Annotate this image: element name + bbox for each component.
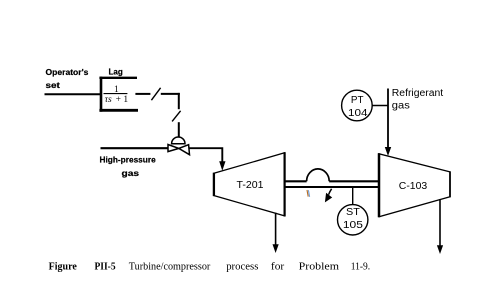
lag block value label: 1/(τs+1): [104, 85, 129, 105]
svg-text:Turbine/compressor: Turbine/compressor: [129, 260, 211, 272]
small artifact tick on shaft: [307, 190, 310, 197]
shaft: turbine to compressor (double line with jump hump): [285, 181, 379, 187]
slash mark on horizontal signal wire: [151, 88, 160, 100]
pipe: compressor discharge downward: [439, 199, 441, 247]
svg-text:High-pressure: High-pressure: [100, 155, 156, 165]
label: High-pressure gas: [100, 155, 156, 178]
pipe: valve outlet to turbine inlet: [189, 148, 222, 162]
shaft jump hump: [307, 169, 330, 181]
wire: operator set-point signal into lag block: [45, 93, 101, 95]
svg-text:11-9.: 11-9.: [351, 260, 371, 272]
turbine T-201 body: [214, 152, 285, 216]
arrowhead refrigerant inlet: [385, 147, 391, 156]
pipe: refrigerant gas into compressor: [387, 89, 389, 149]
svg-text:gas: gas: [392, 101, 410, 112]
svg-text:105: 105: [343, 220, 363, 231]
svg-text:PII-5: PII-5: [95, 260, 117, 272]
wire: signal down to valve actuator (vertical, with slash): [178, 93, 180, 138]
wire: pressure tap to PT-104: [372, 105, 389, 107]
svg-text:gas: gas: [122, 168, 140, 178]
svg-text:Refrigerant: Refrigerant: [392, 88, 444, 99]
svg-text:ST: ST: [346, 207, 360, 218]
svg-text:PT: PT: [351, 95, 364, 106]
speed transmitter ST-105: [338, 205, 368, 235]
compressor C-103 body: [379, 153, 450, 217]
arrowhead turbine exhaust: [273, 244, 279, 253]
label: Refrigerant gas: [392, 88, 444, 112]
arrowhead into turbine inlet: [219, 161, 225, 170]
svg-text:Operator's: Operator's: [46, 67, 89, 77]
lag block 1/(tau s + 1) (open right side): [99, 77, 138, 112]
pipe: turbine exhaust downward: [275, 213, 277, 246]
svg-text:for: for: [271, 260, 285, 272]
svg-text:+ 1: + 1: [116, 95, 129, 105]
wire: shaft to speed transmitter: [352, 188, 354, 205]
svg-text:Lag: Lag: [109, 67, 123, 77]
control valve (actuator diaphragm + bowtie body): [168, 137, 190, 155]
pipe: high-pressure gas feed through valve: [101, 147, 169, 149]
label: Operator's set: [46, 67, 89, 90]
wire: lag output electrical signal (horizontal, with slash): [135, 93, 179, 95]
svg-text:Problem: Problem: [299, 260, 340, 272]
caption: Figure PII-5 Turbine/compressor process for Problem 11-9.: [49, 260, 371, 272]
svg-text:set: set: [46, 80, 60, 90]
svg-text:C-103: C-103: [399, 181, 428, 192]
slash mark on vertical signal wire: [172, 111, 181, 122]
rotation arrow on shaft: [325, 189, 332, 203]
svg-text:τs: τs: [105, 95, 112, 105]
arrowhead compressor discharge: [437, 245, 443, 254]
svg-text:104: 104: [348, 108, 368, 119]
svg-text:Figure: Figure: [49, 260, 77, 272]
pressure transmitter PT-104: [342, 90, 373, 121]
svg-text:T-201: T-201: [237, 180, 264, 191]
svg-text:process: process: [226, 260, 258, 272]
